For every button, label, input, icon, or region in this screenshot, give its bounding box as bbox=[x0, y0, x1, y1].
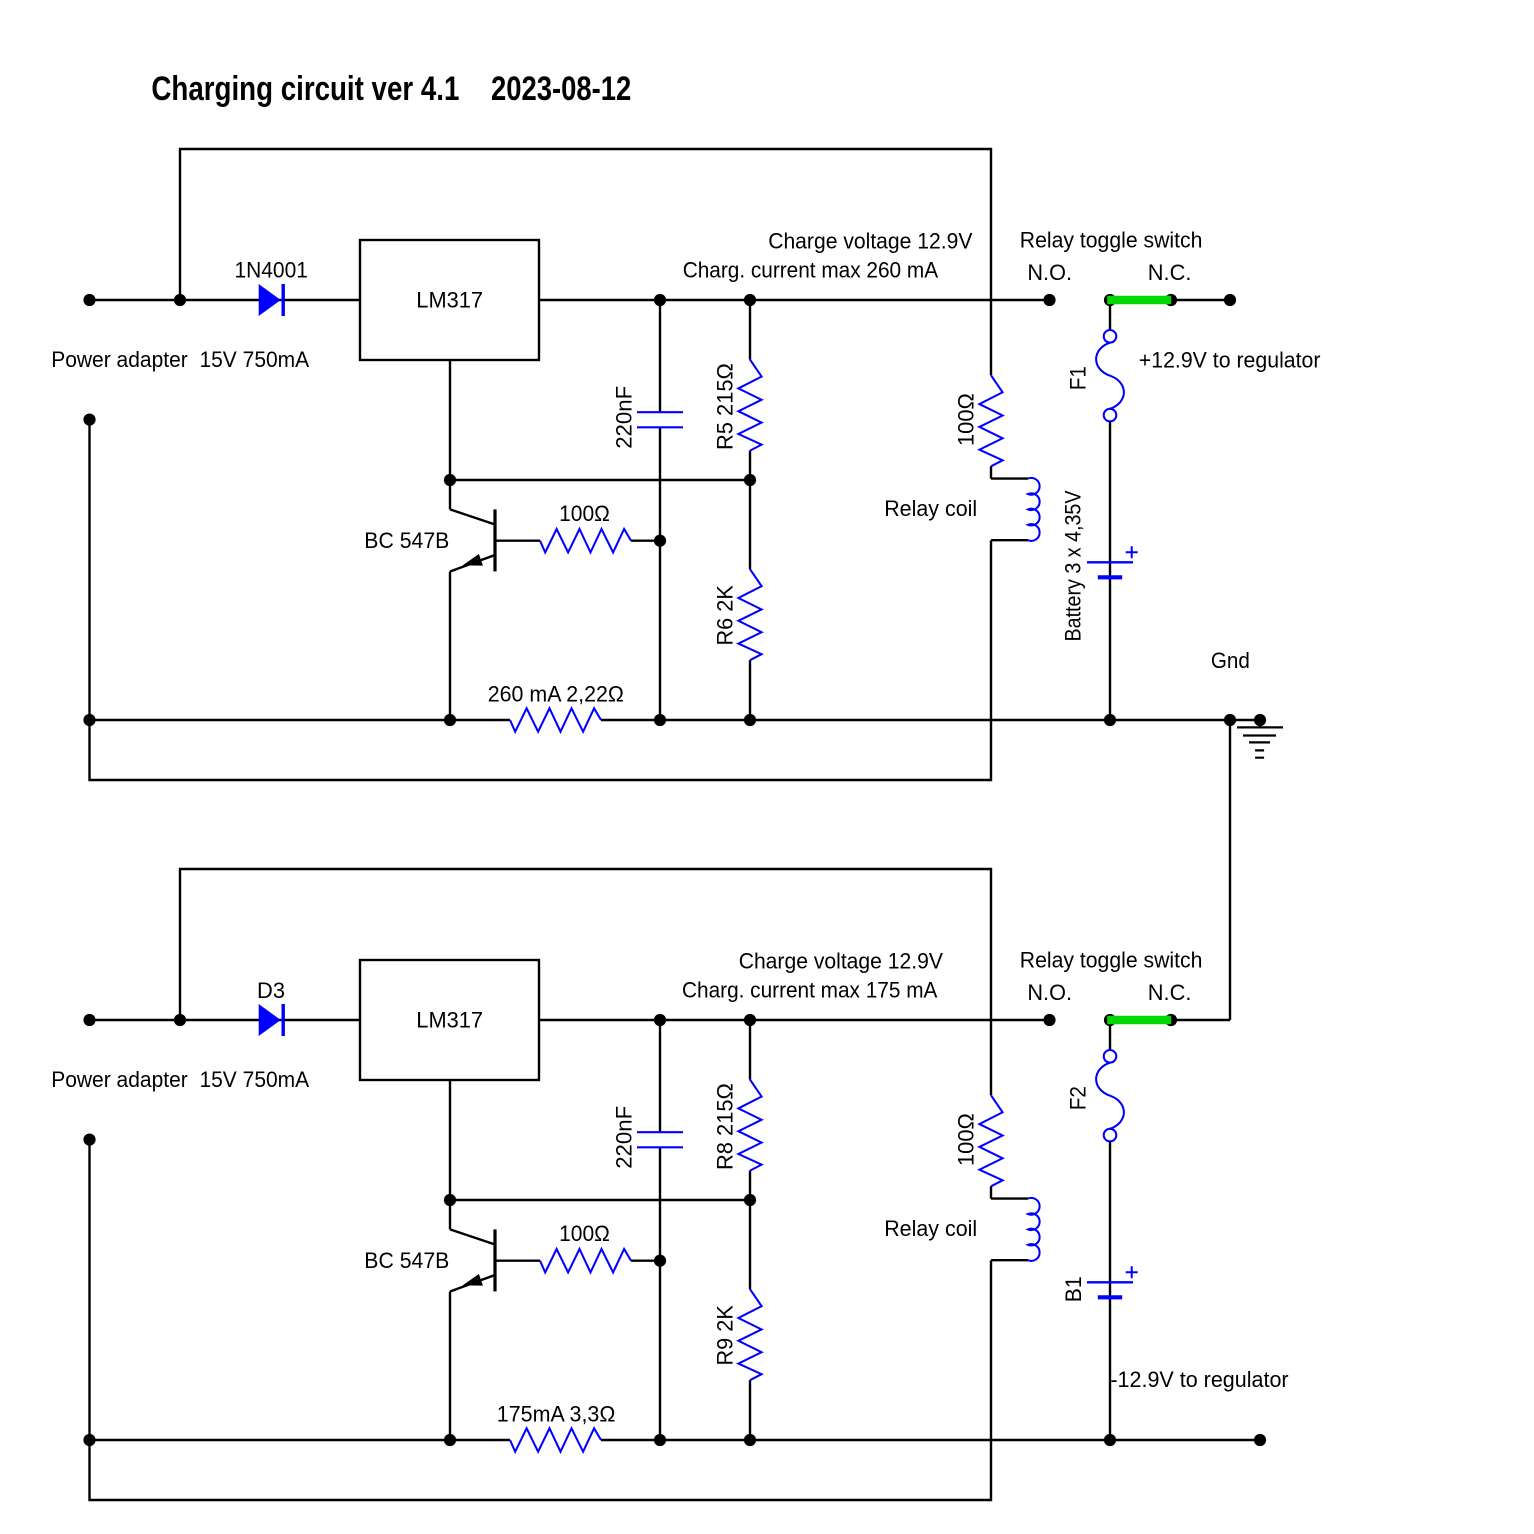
svg-text:Charging circuit ver 4.1: Charging circuit ver 4.1 bbox=[151, 70, 459, 108]
svg-text:F2: F2 bbox=[1066, 1086, 1091, 1110]
svg-text:B1: B1 bbox=[1061, 1276, 1086, 1302]
svg-text:R6 2K: R6 2K bbox=[713, 585, 738, 646]
svg-text:1N4001: 1N4001 bbox=[234, 257, 308, 282]
svg-text:-12.9V to regulator: -12.9V to regulator bbox=[1110, 1367, 1288, 1392]
svg-text:D3: D3 bbox=[257, 978, 285, 1003]
svg-text:Charg. current max 260 mA: Charg. current max 260 mA bbox=[683, 258, 939, 283]
svg-text:Battery 3 x 4,35V: Battery 3 x 4,35V bbox=[1061, 490, 1086, 641]
svg-text:Charge voltage 12.9V: Charge voltage 12.9V bbox=[768, 228, 973, 253]
svg-text:+12.9V to regulator: +12.9V to regulator bbox=[1139, 348, 1321, 373]
svg-text:F1: F1 bbox=[1066, 366, 1091, 390]
svg-text:Charg. current max 175 mA: Charg. current max 175 mA bbox=[682, 978, 938, 1003]
svg-text:R9 2K: R9 2K bbox=[713, 1305, 738, 1366]
svg-text:260 mA 2,22Ω: 260 mA 2,22Ω bbox=[488, 682, 624, 707]
svg-text:R5 215Ω: R5 215Ω bbox=[713, 363, 738, 450]
svg-text:Gnd: Gnd bbox=[1211, 648, 1250, 673]
svg-text:R8 215Ω: R8 215Ω bbox=[713, 1083, 738, 1170]
svg-text:2023-08-12: 2023-08-12 bbox=[491, 70, 631, 108]
svg-text:Charge voltage 12.9V: Charge voltage 12.9V bbox=[739, 948, 944, 973]
svg-text:175mA 3,3Ω: 175mA 3,3Ω bbox=[497, 1402, 616, 1427]
